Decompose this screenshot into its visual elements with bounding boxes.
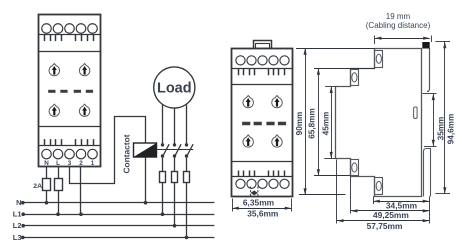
bottom terminal separator line [232, 176, 292, 178]
junction dot fuse2 / L2 [173, 224, 177, 228]
indicator icon top-right [79, 64, 89, 76]
terminal circles bottom row [42, 149, 98, 159]
wire L terminal to L1 bus [58, 167, 60, 215]
load symbol [154, 67, 195, 108]
DIN clamp block (black) [422, 42, 429, 49]
top terminal separator line [232, 68, 292, 70]
svg-text:65,8mm: 65,8mm [308, 108, 317, 139]
svg-text:Contactot: Contactot [121, 134, 131, 173]
L2 bus line [21, 224, 214, 228]
indicator icon top-left [243, 96, 253, 108]
junction dot terminal-2 wire / L1 bus [79, 212, 83, 216]
terminal circles top row [42, 24, 98, 34]
junction dot fuse3 / L3 [185, 236, 189, 240]
display dashes [48, 90, 93, 93]
L3 bus line [21, 236, 214, 240]
wire terminal 3 to contactor coil [70, 117, 146, 184]
N bus line [21, 201, 214, 205]
lower divider line [232, 161, 292, 163]
65,8mm extension lines [314, 69, 375, 176]
indicator icon bottom-left [243, 135, 253, 147]
fuse F1 2A on N wire [43, 179, 51, 191]
svg-text:19 mm: 19 mm [386, 12, 411, 21]
svg-text:3: 3 [68, 160, 72, 167]
fuse F4 phase 2 [172, 172, 178, 183]
svg-text:57,75mm: 57,75mm [367, 221, 403, 231]
45mm dimension line [330, 87, 333, 159]
junction dot N wire / N bus [45, 201, 49, 205]
DIN rail clip foot [424, 149, 431, 197]
fuse F5 phase 3 [184, 172, 190, 183]
svg-text:94,6mm: 94,6mm [446, 114, 455, 145]
terminal labels N L 3 2 1 [44, 160, 95, 167]
top terminal screw recess 2 [351, 70, 359, 86]
svg-text:2: 2 [79, 160, 83, 167]
wire load phase 2 [174, 108, 176, 145]
indicator icon bottom-left [49, 104, 59, 116]
fuse F2 on L wire [55, 179, 63, 191]
svg-text:6,35mm: 6,35mm [243, 197, 274, 207]
bottom dimension extension lines [337, 160, 430, 224]
90mm extension lines [296, 49, 375, 195]
top terminal separator line [39, 34, 100, 36]
wire N terminal to N bus [46, 167, 48, 203]
terminal circles bottom row [236, 179, 289, 188]
upper divider line [39, 51, 100, 53]
wire load phase 1 [162, 104, 164, 145]
indicator icon top-left [49, 64, 59, 76]
svg-text:1: 1 [91, 160, 95, 167]
indicator icon bottom-right [79, 104, 89, 116]
wire fuse 2 to L2 bus [174, 183, 176, 226]
35mm extension line [423, 93, 437, 95]
19mm dimension line [375, 36, 432, 45]
rail seat extension line [424, 146, 437, 148]
lower divider line [39, 126, 100, 128]
90mm dimension line [304, 48, 307, 194]
contactor switch pole 3 [185, 143, 193, 158]
svg-text:L: L [56, 160, 60, 167]
svg-text:45mm: 45mm [322, 112, 331, 136]
junction dot L wire / L1 bus [56, 212, 60, 216]
wire load phase 3 [186, 104, 188, 145]
57,75mm dimension line [337, 219, 429, 222]
35mm dimension line [432, 94, 435, 147]
L1 bus line [21, 212, 214, 216]
svg-text:35,6mm: 35,6mm [247, 209, 278, 219]
94,6mm extension lines [435, 42, 450, 194]
65,8mm dimension line [317, 68, 320, 176]
junction dot fuse1 / L1 [161, 212, 165, 216]
svg-text:L3: L3 [13, 233, 22, 242]
svg-text:2A: 2A [33, 183, 42, 190]
bottom terminal screw recess 2 [375, 178, 383, 195]
contactor switch pole 1 [161, 143, 169, 158]
module body outline [39, 15, 101, 167]
top comb ticks [239, 69, 285, 76]
indicator icon top-right [272, 96, 282, 108]
contactor linkage line [157, 149, 194, 151]
display dashes [242, 122, 286, 126]
junction dot coil wire / N bus [144, 201, 148, 205]
49,25mm dimension line [351, 209, 429, 212]
svg-text:N: N [44, 160, 49, 167]
wire terminal 2 to L1 bus [80, 167, 82, 215]
top comb ticks [45, 34, 94, 41]
contactor coil K1 [134, 143, 157, 157]
34,5mm dimension line [373, 200, 429, 203]
svg-text:49,25mm: 49,25mm [373, 210, 409, 220]
top terminal screw recess 1 [375, 51, 383, 68]
wire contactor coil to N bus [145, 157, 147, 203]
svg-text:L1: L1 [13, 210, 22, 219]
svg-text:L2: L2 [13, 221, 22, 230]
45mm extension lines [324, 87, 336, 159]
width dimension line 35,6mm [232, 207, 291, 210]
bottom comb ticks [239, 171, 285, 177]
bottom terminal separator line [39, 145, 100, 147]
upper divider line [232, 84, 292, 86]
width dimension extension lines [233, 199, 292, 212]
DIN rail slot [414, 107, 418, 119]
svg-text:N: N [16, 198, 21, 207]
side view body outline [336, 49, 422, 197]
terminal circles top row [236, 56, 289, 65]
contactor switch pole 2 [173, 143, 181, 158]
indicator icon bottom-right [272, 135, 282, 147]
6,35mm dashed gauge lines [251, 187, 258, 197]
bottom terminal screw recess 1 [351, 160, 359, 176]
DIN clamp slider stem [427, 48, 430, 92]
wire switch 3 to fuse [186, 156, 188, 171]
svg-text:(Cabling distance): (Cabling distance) [366, 21, 431, 30]
wire switch 1 to fuse [162, 156, 164, 171]
wire fuse 3 to L3 bus [186, 183, 188, 237]
module body outline [232, 49, 293, 197]
svg-text:Load: Load [157, 81, 192, 97]
bottom comb ticks [45, 139, 94, 145]
top mounting tab [254, 41, 272, 49]
fuse F3 phase 1 [160, 172, 166, 183]
wire fuse 1 to L1 bus [162, 183, 164, 214]
wire switch 2 to fuse [174, 156, 176, 171]
94,6mm dimension line [443, 42, 446, 194]
svg-text:90mm: 90mm [295, 112, 304, 136]
